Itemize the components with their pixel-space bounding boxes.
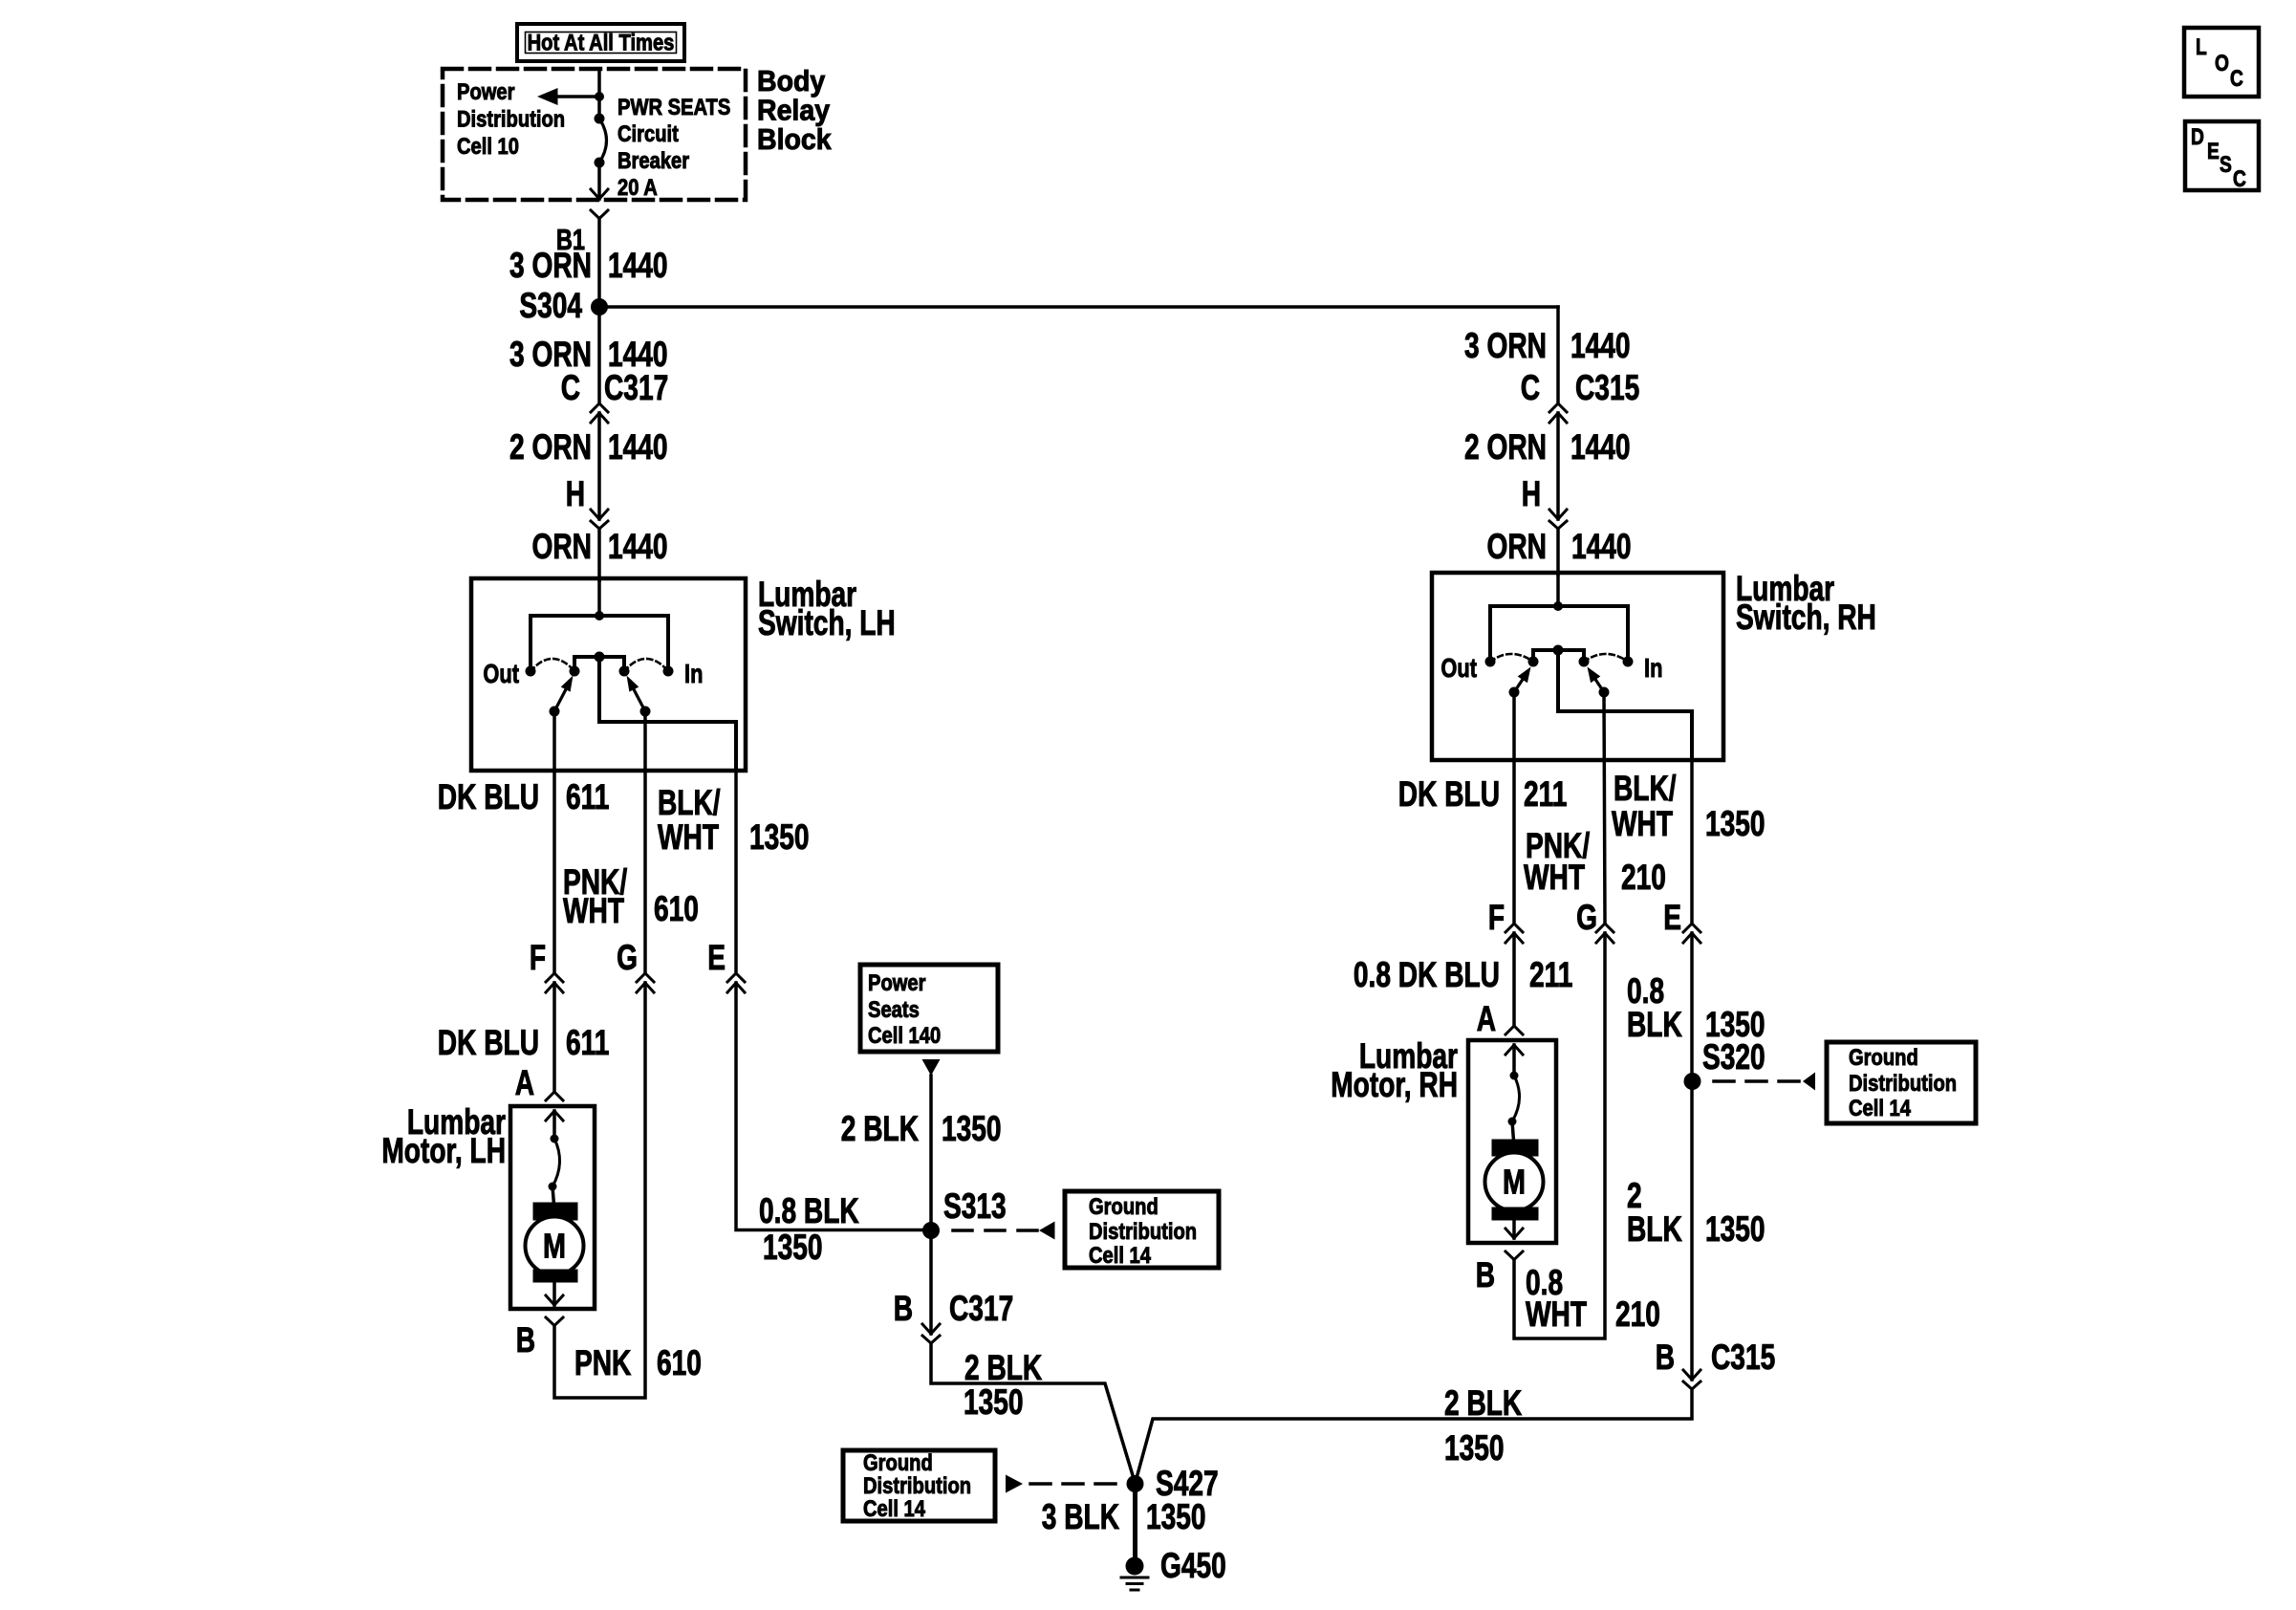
wire S304 to right branch — [599, 305, 1558, 309]
connector on wire E — [727, 973, 745, 982]
svg-text:C315: C315 — [1711, 1337, 1775, 1377]
dashed reference to ground distribution — [1714, 1079, 1802, 1083]
wire 3 BLK 1350 — [1133, 1484, 1137, 1566]
connector on wire G — [637, 973, 654, 982]
svg-text:Power: Power — [868, 969, 926, 995]
svg-text:20 A: 20 A — [617, 174, 658, 200]
connector on wire G — [1596, 924, 1614, 932]
svg-text:Motor, LH: Motor, LH — [381, 1130, 506, 1170]
node (wire junction) — [595, 92, 604, 101]
svg-text:F: F — [1488, 897, 1505, 937]
arrow to Power Distribution — [557, 95, 599, 98]
wire PNK 610 motor B to switch G — [554, 983, 645, 1398]
svg-text:ORN: ORN — [532, 526, 592, 566]
svg-text:Seats: Seats — [868, 996, 920, 1022]
svg-text:DK BLU: DK BLU — [438, 776, 539, 816]
svg-text:B: B — [516, 1319, 535, 1360]
wire breaker output — [597, 163, 601, 199]
svg-text:1350: 1350 — [1705, 1208, 1765, 1249]
body relay block (dashed box) — [443, 69, 746, 200]
svg-text:2 ORN: 2 ORN — [509, 426, 592, 467]
lumbar motor LH box — [510, 1106, 595, 1309]
svg-text:0.8 BLK: 0.8 BLK — [759, 1190, 859, 1230]
lumbar switch RH box — [1432, 573, 1723, 760]
svg-text:Relay: Relay — [757, 94, 830, 126]
svg-text:Ground: Ground — [1089, 1193, 1159, 1219]
svg-text:611: 611 — [566, 776, 609, 816]
splice S304 — [591, 298, 608, 315]
svg-text:1440: 1440 — [608, 526, 668, 566]
circuit breaker PWR SEATS 20 A — [595, 114, 605, 124]
svg-text:C315: C315 — [1575, 367, 1639, 407]
motor RH armature M — [1492, 1140, 1538, 1156]
svg-text:F: F — [530, 937, 546, 977]
motor RH thermal protector — [1510, 1072, 1519, 1080]
svg-text:1350: 1350 — [1146, 1496, 1206, 1536]
svg-text:WHT: WHT — [1524, 857, 1585, 897]
dashed reference to S427 — [1006, 1475, 1023, 1493]
wire 0.8 DK BLU 211 — [1512, 933, 1516, 1024]
wire BLK/WHT 1350 (E) — [1690, 760, 1694, 922]
svg-text:In: In — [684, 659, 703, 688]
svg-text:Switch, RH: Switch, RH — [1736, 597, 1876, 637]
svg-text:0.8 DK BLU: 0.8 DK BLU — [1354, 954, 1500, 994]
svg-text:3 BLK: 3 BLK — [1042, 1496, 1119, 1536]
svg-text:211: 211 — [1524, 773, 1567, 814]
svg-text:1350: 1350 — [964, 1382, 1024, 1422]
wire feed into relay block — [597, 69, 601, 119]
motor LH internal feed arrow — [546, 1111, 563, 1120]
wire 3 ORN 1440 — [597, 219, 601, 308]
switch LH output path — [599, 657, 736, 771]
wire 2 BLK 1350 to S427 — [931, 1343, 1136, 1484]
svg-text:H: H — [566, 473, 585, 513]
motor RH output arrow — [1512, 1213, 1516, 1238]
svg-text:Cell 140: Cell 140 — [868, 1022, 941, 1048]
lumbar motor RH box — [1468, 1040, 1556, 1243]
connector on wire E — [1683, 924, 1700, 932]
svg-text:WHT: WHT — [1612, 803, 1673, 843]
switch RH output path — [1558, 650, 1692, 760]
wire DK BLU 611 (F) — [552, 711, 556, 971]
DESC reference box — [2185, 121, 2259, 190]
svg-text:1350: 1350 — [763, 1227, 823, 1267]
motor pin B connector — [1505, 1251, 1523, 1260]
svg-text:E: E — [2207, 138, 2220, 164]
svg-text:C: C — [561, 367, 580, 407]
svg-text:Power: Power — [457, 78, 515, 104]
svg-text:BLK: BLK — [1627, 1208, 1682, 1249]
svg-text:C: C — [1521, 367, 1540, 407]
svg-text:BLK: BLK — [1627, 1004, 1682, 1044]
svg-text:B: B — [1656, 1337, 1675, 1377]
wire 0.8 BLK 1350 (E to S313) — [736, 983, 931, 1230]
svg-text:210: 210 — [1621, 857, 1666, 897]
svg-text:Out: Out — [1440, 653, 1477, 683]
switch LH dashed travel arc right — [624, 659, 668, 671]
wire DK BLU 211 (F) — [1512, 692, 1516, 922]
svg-text:1440: 1440 — [1570, 426, 1631, 467]
switch LH dashed travel arc left — [531, 659, 574, 671]
label box Ground Distribution Cell 14 — [1065, 1191, 1219, 1268]
switch RH wiper contact right — [1599, 687, 1610, 698]
svg-text:Ground: Ground — [1849, 1044, 1918, 1070]
svg-text:C: C — [2233, 165, 2246, 192]
svg-text:S: S — [2220, 151, 2232, 178]
motor RH internal feed arrow — [1505, 1045, 1523, 1055]
svg-text:G: G — [1576, 897, 1597, 937]
switch RH wiper contact left — [1509, 687, 1520, 698]
switch LH wiper contact right — [640, 707, 651, 717]
lumbar switch LH box — [471, 578, 746, 771]
svg-text:1440: 1440 — [608, 426, 668, 467]
wire PNK/WHT 210 (G) — [1604, 692, 1605, 922]
svg-text:E: E — [1663, 897, 1681, 937]
wire PNK/WHT 610 (G) — [643, 711, 647, 971]
label box Power Seats Cell 140 — [860, 965, 998, 1052]
svg-text:M: M — [543, 1226, 566, 1265]
svg-text:611: 611 — [566, 1022, 609, 1062]
svg-text:1350: 1350 — [749, 816, 810, 857]
svg-text:BLK/: BLK/ — [1614, 768, 1677, 808]
wire 2 BLK 1350 below S320 — [1690, 1081, 1694, 1380]
connector C315 pin B — [1683, 1370, 1700, 1380]
svg-text:Motor, RH: Motor, RH — [1331, 1064, 1458, 1104]
svg-text:1350: 1350 — [942, 1108, 1002, 1148]
svg-text:Distribution: Distribution — [1849, 1070, 1957, 1096]
svg-text:1440: 1440 — [1570, 325, 1631, 365]
feed arrow from Power Seats cell — [922, 1059, 941, 1076]
svg-text:1350: 1350 — [1705, 803, 1765, 843]
svg-text:3 ORN: 3 ORN — [1464, 325, 1547, 365]
connector on wire F — [546, 973, 563, 982]
switch LH supply bar — [531, 616, 668, 671]
svg-text:WHT: WHT — [1526, 1294, 1587, 1334]
switch RH feed wire — [1556, 575, 1560, 606]
svg-text:C: C — [2230, 65, 2243, 92]
label box Ground Distribution Cell 14 — [1827, 1042, 1976, 1123]
switch LH feed wire — [597, 580, 601, 616]
svg-text:WHT: WHT — [658, 816, 719, 857]
svg-text:Body: Body — [757, 65, 826, 98]
svg-text:1350: 1350 — [1444, 1427, 1505, 1468]
svg-text:M: M — [1503, 1162, 1526, 1201]
ground G450 — [1126, 1557, 1144, 1576]
wire 0.8 WHT 210 motor B to switch G — [1514, 933, 1605, 1338]
svg-text:Breaker: Breaker — [617, 147, 689, 173]
splice S313 — [922, 1222, 940, 1239]
svg-text:ORN: ORN — [1487, 526, 1547, 566]
svg-text:G: G — [617, 937, 638, 977]
switch RH dashed travel arc right — [1584, 654, 1628, 662]
svg-text:1440: 1440 — [1571, 526, 1632, 566]
splice S320 — [1684, 1073, 1701, 1090]
wire ORN 1440 — [1556, 529, 1560, 575]
motor LH thermal protector — [551, 1135, 559, 1143]
svg-text:H: H — [1522, 473, 1541, 513]
svg-text:211: 211 — [1529, 954, 1572, 994]
motor pin B connector — [546, 1317, 563, 1326]
svg-text:Cell 10: Cell 10 — [457, 133, 519, 159]
connector pin B1 — [591, 210, 608, 219]
svg-text:S313: S313 — [943, 1186, 1007, 1226]
motor LH output arrow — [552, 1277, 556, 1305]
svg-text:D: D — [2191, 123, 2204, 150]
switch RH common contact bar — [1533, 650, 1584, 662]
svg-text:DK BLU: DK BLU — [1398, 773, 1500, 814]
connector C317 pin B — [922, 1324, 940, 1334]
svg-text:B: B — [894, 1288, 913, 1328]
svg-text:A: A — [515, 1062, 534, 1102]
svg-text:DK BLU: DK BLU — [438, 1022, 539, 1062]
svg-text:WHT: WHT — [563, 890, 624, 930]
svg-text:B: B — [1476, 1254, 1495, 1295]
svg-text:PWR SEATS: PWR SEATS — [617, 94, 730, 120]
svg-text:2 BLK: 2 BLK — [841, 1108, 919, 1148]
svg-text:610: 610 — [654, 888, 699, 928]
wire DK BLU 611 to motor — [552, 983, 556, 1090]
LOC reference box — [2184, 28, 2259, 97]
switch RH dashed travel arc left — [1490, 654, 1533, 662]
svg-text:Cell 14: Cell 14 — [1089, 1242, 1152, 1268]
wire 2 BLK 1350 to S427 — [1136, 1389, 1693, 1484]
wire 2 ORN 1440 — [1556, 413, 1560, 519]
svg-text:Cell 14: Cell 14 — [863, 1495, 926, 1521]
svg-text:In: In — [1644, 653, 1662, 683]
svg-text:Block: Block — [757, 123, 832, 156]
svg-text:Circuit: Circuit — [617, 120, 679, 146]
svg-text:L: L — [2196, 33, 2207, 60]
splice S427 — [1127, 1475, 1144, 1492]
svg-text:Distribution: Distribution — [457, 106, 565, 132]
svg-text:A: A — [1477, 998, 1496, 1038]
switch RH supply bar — [1490, 606, 1628, 662]
switch LH wiper contact left — [550, 707, 560, 717]
svg-text:2 BLK: 2 BLK — [1444, 1382, 1522, 1423]
svg-text:Distribution: Distribution — [1089, 1218, 1197, 1244]
wire S313 down — [929, 1230, 933, 1334]
svg-text:PNK: PNK — [574, 1342, 632, 1382]
wire 3 ORN 1440 right branch — [1556, 307, 1560, 402]
svg-text:3 ORN: 3 ORN — [509, 245, 592, 285]
svg-text:Switch, LH: Switch, LH — [758, 602, 896, 642]
svg-text:210: 210 — [1615, 1294, 1660, 1334]
svg-text:O: O — [2215, 50, 2229, 76]
svg-text:G450: G450 — [1160, 1545, 1226, 1585]
motor LH armature M — [533, 1203, 577, 1220]
svg-text:S304: S304 — [519, 285, 582, 325]
svg-text:E: E — [707, 937, 726, 977]
dashed reference to ground distribution — [953, 1229, 1039, 1232]
label Hot At All Times — [517, 24, 684, 61]
wire ORN 1440 — [597, 529, 601, 580]
svg-text:1440: 1440 — [608, 245, 668, 285]
label box Ground Distribution Cell 14 — [843, 1450, 995, 1521]
wire 2 ORN 1440 — [597, 413, 601, 519]
svg-text:C317: C317 — [949, 1288, 1013, 1328]
svg-text:Hot At All Times: Hot At All Times — [528, 30, 675, 55]
wire 3 ORN 1440 below S304 — [597, 307, 601, 402]
svg-text:Out: Out — [483, 659, 519, 688]
svg-text:Cell 14: Cell 14 — [1849, 1095, 1912, 1120]
svg-text:C317: C317 — [604, 367, 668, 407]
wire 0.8 BLK 1350 (E to S320) — [1690, 933, 1694, 1081]
svg-text:610: 610 — [657, 1342, 702, 1382]
switch LH common contact bar — [574, 657, 624, 671]
wire 2 BLK 1350 — [929, 1076, 933, 1230]
svg-text:2 ORN: 2 ORN — [1464, 426, 1547, 467]
wire BLK/WHT 1350 (E) — [734, 771, 738, 971]
svg-text:S320: S320 — [1702, 1036, 1765, 1077]
connector on wire F — [1505, 924, 1523, 932]
